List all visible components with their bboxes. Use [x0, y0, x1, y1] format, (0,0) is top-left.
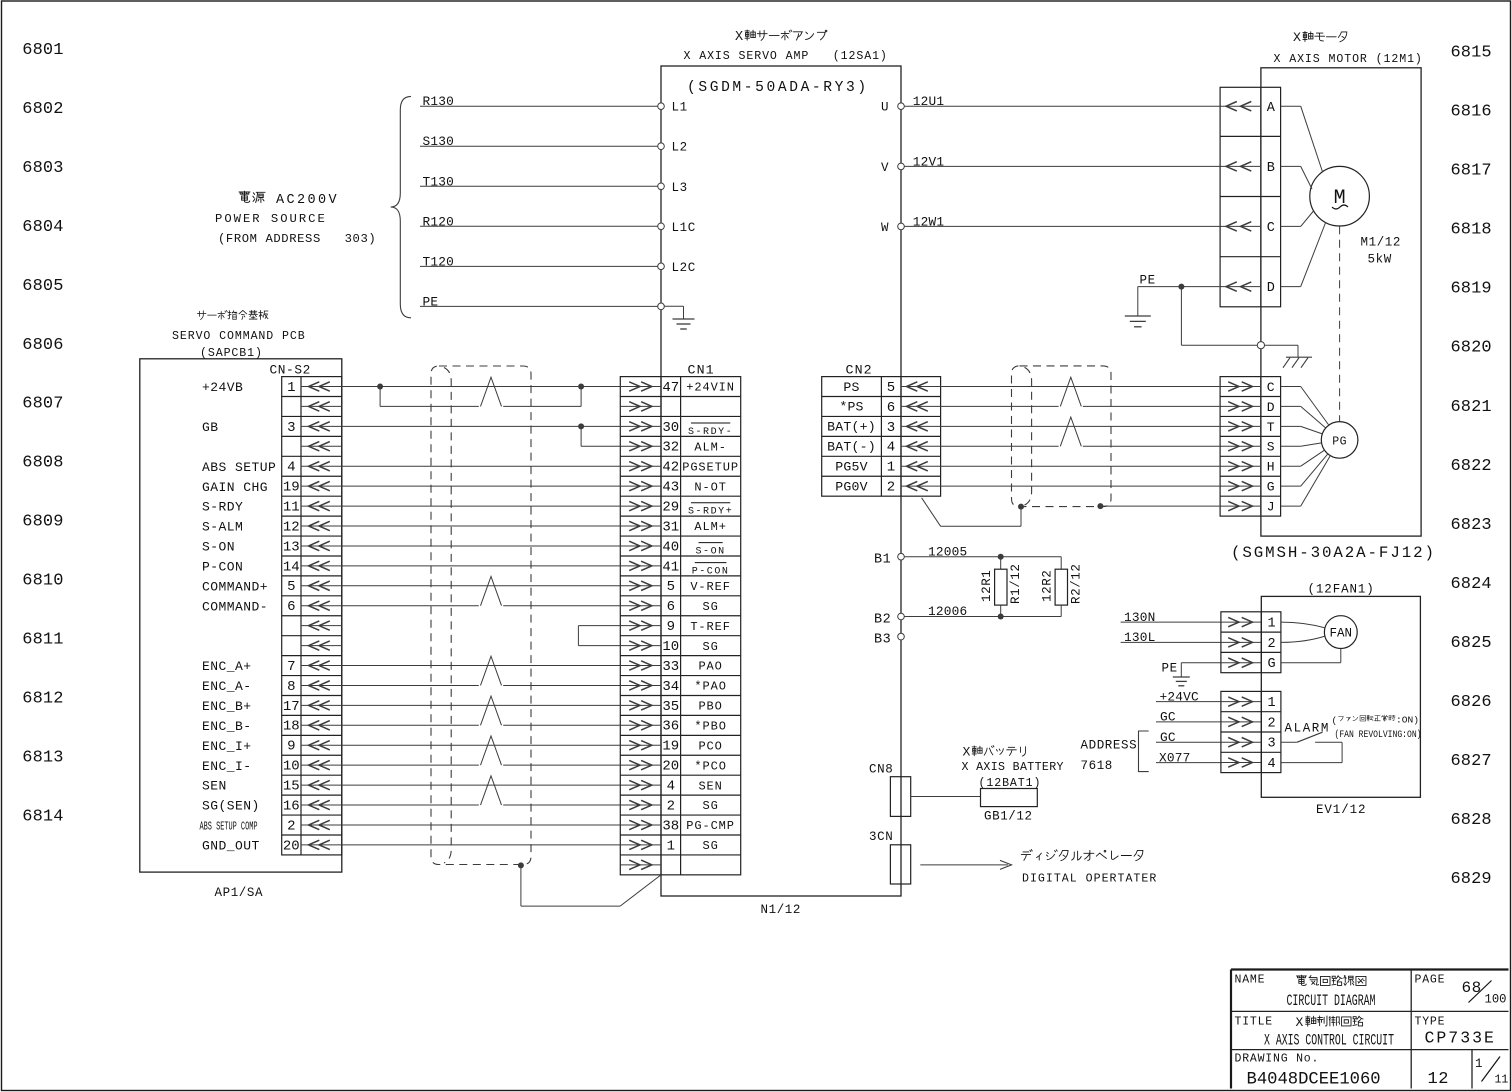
- wires encoder connector to PG: [1281, 387, 1331, 507]
- terminal W of servo amp: [881, 221, 904, 235]
- motor frame terminal circle: [1257, 342, 1264, 349]
- terminal U of servo amp: [881, 101, 904, 115]
- shield drain wire to CN1 shell: [518, 862, 660, 906]
- svg-text:1: 1: [287, 380, 295, 396]
- svg-text:6801: 6801: [22, 41, 63, 60]
- svg-text:12R2: 12R2: [1041, 570, 1055, 602]
- servo amplifier U=12SA1 box outline: [661, 66, 901, 896]
- wire CN-S2 row to CN1 pin (row 9): [342, 545, 621, 547]
- svg-text:PE: PE: [1162, 662, 1178, 676]
- svg-text:(: (: [1332, 715, 1338, 726]
- svg-text:6802: 6802: [22, 100, 63, 119]
- svg-text:15: 15: [283, 779, 300, 795]
- svg-text:T-REF: T-REF: [690, 620, 731, 634]
- svg-text:R120: R120: [423, 214, 455, 229]
- left margin line numbers 6801-6814: [22, 41, 63, 826]
- svg-text:17: 17: [283, 699, 300, 715]
- wire 130L to fan pin2: [1121, 630, 1221, 645]
- svg-text:CN-S2: CN-S2: [270, 363, 311, 378]
- wire CN-S2 row to CN1 pin (row 1): [342, 386, 621, 388]
- alarm connector cells 1 2 3 4: [1221, 691, 1281, 772]
- svg-text:6823: 6823: [1451, 516, 1492, 535]
- svg-text:10: 10: [283, 759, 300, 775]
- svg-text:B3: B3: [874, 633, 891, 648]
- chassis ground symbol inside motor: [1265, 345, 1313, 368]
- wires fan pins to fan motor: [1281, 622, 1341, 663]
- svg-text:SERVO COMMAND PCB: SERVO COMMAND PCB: [172, 330, 306, 343]
- svg-text:47: 47: [662, 380, 679, 396]
- svg-text:B2: B2: [874, 612, 891, 627]
- svg-text:6826: 6826: [1451, 693, 1492, 712]
- svg-text:1: 1: [1268, 696, 1276, 711]
- svg-text:11: 11: [1495, 1074, 1509, 1087]
- arrow to digital operator: [920, 860, 1011, 869]
- svg-text:1: 1: [887, 460, 895, 476]
- junctions and second conductor of +24VB pair: [377, 377, 584, 406]
- svg-text:ENC_I-: ENC_I-: [202, 759, 252, 774]
- svg-text:ENC_A-: ENC_A-: [202, 679, 252, 694]
- svg-text:P-CON: P-CON: [692, 566, 730, 577]
- svg-text:CN1: CN1: [688, 363, 715, 378]
- fan connector cells 1 2 G: [1221, 612, 1281, 673]
- svg-text:*PAO: *PAO: [694, 680, 726, 694]
- svg-text:ENC_B+: ENC_B+: [202, 699, 252, 714]
- svg-text:L3: L3: [672, 181, 688, 195]
- svg-text:AP1/SA: AP1/SA: [215, 886, 264, 900]
- svg-text:L1: L1: [672, 101, 688, 115]
- svg-text::ON): :ON): [1396, 716, 1419, 726]
- svg-text:SEN: SEN: [698, 779, 722, 793]
- svg-text:S-RDY+: S-RDY+: [688, 507, 733, 518]
- svg-text:6: 6: [667, 599, 675, 615]
- svg-text:4: 4: [887, 440, 895, 456]
- svg-text:100: 100: [1485, 993, 1507, 1007]
- svg-text:4: 4: [287, 460, 295, 476]
- svg-text:GB: GB: [202, 420, 219, 435]
- wire CN-S2 row to CN1 pin (row 17): [342, 704, 621, 706]
- servo command PCB box (SAPCB1): [140, 359, 342, 872]
- svg-text:X AXIS BATTERY: X AXIS BATTERY: [962, 761, 1064, 774]
- svg-text:5: 5: [667, 579, 675, 595]
- svg-text:COMMAND+: COMMAND+: [202, 579, 268, 594]
- title block PAGE 68/100: [1415, 974, 1507, 1007]
- svg-text:31: 31: [662, 519, 679, 535]
- svg-text:20: 20: [283, 838, 300, 854]
- svg-text:14: 14: [283, 559, 300, 575]
- svg-text:TITLE: TITLE: [1235, 1016, 1274, 1029]
- svg-text:CIRCUIT DIAGRAM: CIRCUIT DIAGRAM: [1287, 992, 1376, 1010]
- command cable shield (dashed): [431, 366, 531, 865]
- svg-text:12R1: 12R1: [980, 570, 994, 602]
- wire encoder shield to pin J: [1097, 503, 1220, 509]
- svg-text:C: C: [1267, 221, 1275, 236]
- svg-text:ENC_B-: ENC_B-: [202, 719, 252, 734]
- svg-text:40: 40: [662, 539, 679, 555]
- resistor 12R2 R2/12: [1041, 557, 1084, 617]
- svg-text:+24VB: +24VB: [202, 380, 243, 395]
- label ADDRESS 7618 with bracket: [1081, 731, 1149, 773]
- connector 3CN body: [890, 845, 910, 884]
- svg-text:6813: 6813: [22, 748, 63, 767]
- svg-text:S-ALM: S-ALM: [202, 520, 243, 535]
- svg-text:ENC_I+: ENC_I+: [202, 739, 252, 754]
- wire CN2 PG5V to encoder: [941, 465, 1221, 467]
- svg-text:X AXIS CONTROL CIRCUIT: X AXIS CONTROL CIRCUIT: [1264, 1032, 1394, 1050]
- svg-text:12V1: 12V1: [913, 154, 945, 169]
- svg-text:8: 8: [287, 679, 295, 695]
- svg-text:NAME: NAME: [1235, 974, 1266, 987]
- svg-text:X: X: [963, 745, 971, 760]
- svg-text:ABS SETUP COMP: ABS SETUP COMP: [200, 820, 258, 833]
- encoder cable shield (dashed): [1012, 366, 1112, 507]
- wire CN-S2 row to CN1 pin (row 18): [342, 696, 621, 725]
- connector CN-S2 table 24 rows: [282, 377, 342, 855]
- wire CN2 PS to encoder: [941, 386, 1221, 388]
- ground symbol at servo amp PE input: [664, 306, 694, 329]
- svg-text:M1/12: M1/12: [1361, 236, 1402, 250]
- servo amp title X-axis servo amp (Japanese): [735, 30, 827, 45]
- wire R130 to servo amp: [420, 94, 658, 109]
- wire CN-S2 row to CN1 pin (row 10): [342, 565, 621, 567]
- svg-text:BAT(-): BAT(-): [827, 440, 876, 455]
- wire PE to servo amp: [420, 294, 658, 309]
- svg-text:ENC_A+: ENC_A+: [202, 659, 252, 674]
- svg-text:12006: 12006: [928, 604, 967, 619]
- svg-text:2: 2: [287, 818, 295, 834]
- svg-text:6: 6: [887, 400, 895, 416]
- svg-text:M: M: [1334, 187, 1346, 210]
- svg-text:68: 68: [1462, 979, 1482, 997]
- svg-text:6808: 6808: [22, 454, 63, 473]
- svg-text:SG: SG: [702, 839, 718, 853]
- svg-text:12W1: 12W1: [913, 214, 945, 229]
- wire CN-S2 row to CN1 pin (row 6): [342, 485, 621, 487]
- svg-text:S: S: [1267, 440, 1275, 455]
- connector CN2 table with pins PS *PS BAT(+) BAT(-) PG5V PG0V: [822, 377, 941, 497]
- svg-text:42: 42: [662, 460, 679, 476]
- svg-text:G: G: [1267, 480, 1275, 495]
- svg-text:D: D: [1267, 281, 1275, 296]
- svg-text:20: 20: [662, 759, 679, 775]
- svg-text:6828: 6828: [1451, 811, 1492, 830]
- svg-text:7: 7: [287, 659, 295, 675]
- jumper T-REF pin9 to SG pin10: [578, 626, 620, 646]
- svg-text:X077: X077: [1159, 750, 1191, 765]
- svg-text:32: 32: [662, 440, 679, 456]
- svg-text:2: 2: [667, 798, 675, 814]
- title block sheet 1/11: [1475, 1057, 1508, 1087]
- wires motor terminals A-D to winding: [1281, 106, 1326, 286]
- wire CN-S2 row to CN1 pin (row 15): [342, 665, 621, 667]
- power source brace: [391, 96, 411, 317]
- terminal PE on servo amp: [658, 303, 665, 310]
- svg-text:*PBO: *PBO: [694, 720, 726, 734]
- svg-text:X: X: [735, 30, 743, 45]
- svg-text:T120: T120: [423, 254, 455, 269]
- svg-text:PBO: PBO: [698, 700, 722, 714]
- wire 12005 from B1: [904, 544, 1061, 559]
- label servo command PCB (Japanese): [197, 310, 268, 319]
- svg-text:GAIN CHG: GAIN CHG: [202, 480, 268, 495]
- svg-text:SG: SG: [702, 799, 718, 813]
- svg-text:S-RDY-: S-RDY-: [688, 427, 733, 438]
- wire GC to alarm pin2: [1156, 710, 1221, 725]
- wire CN-S2 row to CN1 pin (row 5): [342, 465, 621, 467]
- svg-text:GND_OUT: GND_OUT: [202, 838, 260, 853]
- svg-text:34: 34: [662, 679, 679, 695]
- svg-text:PCO: PCO: [698, 739, 722, 753]
- svg-text:6822: 6822: [1451, 457, 1492, 476]
- svg-text:6814: 6814: [22, 807, 63, 826]
- wire 12006 from B2: [904, 604, 1061, 619]
- svg-text:PAGE: PAGE: [1415, 974, 1446, 987]
- svg-text:N-OT: N-OT: [694, 480, 726, 494]
- title block TITLE X axis control circuit: [1235, 1015, 1395, 1050]
- svg-text:ABS SETUP: ABS SETUP: [202, 460, 276, 475]
- svg-text:S-ON: S-ON: [202, 540, 235, 555]
- svg-text:43: 43: [662, 480, 679, 496]
- svg-text:H: H: [1267, 460, 1275, 475]
- svg-text:P-CON: P-CON: [202, 559, 243, 574]
- wire R120 to servo amp: [420, 214, 658, 229]
- svg-text:18: 18: [283, 719, 300, 735]
- svg-text:GB1/12: GB1/12: [984, 810, 1033, 824]
- svg-text:PG5V: PG5V: [835, 460, 867, 475]
- svg-text:130N: 130N: [1124, 610, 1156, 625]
- resistor 12R1 R1/12: [980, 557, 1023, 617]
- svg-text:X AXIS SERVO AMP (12SA1): X AXIS SERVO AMP (12SA1): [684, 50, 888, 63]
- svg-text:6805: 6805: [22, 277, 63, 296]
- motor shaft dashed link to PG encoder: [1339, 226, 1341, 421]
- svg-text:SG: SG: [702, 600, 718, 614]
- svg-text:6: 6: [287, 599, 295, 615]
- svg-text:PG0V: PG0V: [835, 479, 867, 494]
- svg-text:L1C: L1C: [672, 221, 696, 235]
- wire X077 to alarm pin4: [1156, 750, 1221, 765]
- svg-text:(SGDM-50ADA-RY3): (SGDM-50ADA-RY3): [687, 80, 869, 96]
- svg-text:TYPE: TYPE: [1415, 1016, 1446, 1029]
- right margin line numbers 6815-6829: [1451, 43, 1492, 889]
- wire CN-S2 row to CN1 pin (row 16): [342, 656, 621, 685]
- svg-text:6812: 6812: [22, 689, 63, 708]
- svg-text:130L: 130L: [1124, 630, 1156, 645]
- wire 12U1 from U to motor terminal A: [904, 94, 1220, 109]
- svg-text:10: 10: [662, 639, 679, 655]
- svg-text:V: V: [881, 161, 889, 175]
- svg-text:5kW: 5kW: [1368, 253, 1392, 267]
- svg-text:3: 3: [287, 420, 295, 436]
- junction on wire 12006: [998, 614, 1004, 620]
- svg-text:S130: S130: [423, 134, 455, 149]
- wire CN-S2 row to CN1 pin (row 20): [342, 736, 621, 765]
- svg-text:R130: R130: [423, 94, 455, 109]
- terminal L1 on servo amp: [658, 101, 688, 115]
- fan motor circle FAN: [1324, 616, 1357, 649]
- svg-text:6807: 6807: [22, 395, 63, 414]
- terminal L2C on servo amp: [658, 261, 696, 275]
- wire CN-S2 row to CN1 pin (row 12): [342, 577, 621, 606]
- svg-text:(SGMSH-30A2A-FJ12): (SGMSH-30A2A-FJ12): [1231, 544, 1436, 562]
- svg-text:(12FAN1): (12FAN1): [1308, 583, 1375, 597]
- junction on PE wire: [1178, 284, 1184, 290]
- svg-text:35: 35: [662, 699, 679, 715]
- svg-text:CP733E: CP733E: [1425, 1029, 1496, 1048]
- svg-text:2: 2: [1268, 716, 1276, 731]
- svg-text:ALARM: ALARM: [1285, 722, 1331, 736]
- svg-text:S-RDY: S-RDY: [202, 500, 243, 515]
- terminal B1: [874, 553, 904, 568]
- terminal L1C on servo amp: [658, 221, 696, 235]
- title block NAME circuit diagram: [1235, 974, 1376, 1011]
- terminal B3: [874, 633, 904, 648]
- wire PE to motor terminal D: [1138, 274, 1220, 288]
- svg-text:SEN: SEN: [202, 779, 227, 794]
- svg-text:ALM-: ALM-: [694, 440, 726, 454]
- svg-text:L2: L2: [672, 141, 688, 155]
- earth ground symbol on PE wire: [1125, 287, 1151, 327]
- svg-text:G: G: [1268, 657, 1276, 672]
- junction GB branch to ALM- pin 32: [578, 423, 620, 446]
- svg-text:B1: B1: [874, 553, 891, 568]
- svg-text:6809: 6809: [22, 513, 63, 532]
- svg-text:X: X: [1293, 31, 1301, 46]
- svg-text:A: A: [1267, 101, 1276, 116]
- svg-text:12005: 12005: [928, 544, 967, 559]
- svg-text:+24VC: +24VC: [1160, 689, 1200, 704]
- wire CN-S2 row to CN1 pin (row 24): [342, 844, 621, 846]
- junction on wire 12005: [998, 554, 1004, 560]
- svg-text:*PCO: *PCO: [694, 759, 726, 773]
- svg-text:SG: SG: [702, 640, 718, 654]
- wire CN2 *PS to encoder: [941, 377, 1221, 406]
- terminal L3 on servo amp: [658, 181, 688, 195]
- svg-text:5: 5: [287, 579, 295, 595]
- svg-text:FAN: FAN: [1330, 627, 1353, 641]
- wire CN8 to battery: [911, 796, 981, 798]
- title block frame: [1231, 970, 1509, 1089]
- svg-text:GC: GC: [1160, 730, 1176, 745]
- svg-text:POWER SOURCE: POWER SOURCE: [215, 212, 327, 226]
- svg-text:(FAN REVOLVING:ON): (FAN REVOLVING:ON): [1335, 729, 1422, 741]
- svg-text:DRAWING No.: DRAWING No.: [1235, 1053, 1320, 1066]
- motor winding symbol M circle: [1310, 166, 1370, 226]
- svg-text:R1/12: R1/12: [1009, 563, 1023, 604]
- svg-text:DIGITAL OPERTATER: DIGITAL OPERTATER: [1022, 873, 1157, 886]
- svg-text:3CN: 3CN: [869, 830, 893, 844]
- svg-text:9: 9: [667, 619, 675, 635]
- motor M=12M1 box outline: [1261, 68, 1421, 536]
- wire 130N to fan pin1: [1121, 610, 1221, 625]
- svg-text:36: 36: [662, 719, 679, 735]
- wire T120 to servo amp: [420, 254, 658, 269]
- wire CN-S2 row to CN1 pin (row 8): [342, 525, 621, 527]
- battery GB1/12 (12BAT1): [962, 745, 1064, 824]
- wire CN-S2 row to CN1 pin (row 22): [342, 776, 621, 805]
- svg-text:(12BAT1): (12BAT1): [979, 777, 1042, 790]
- svg-text:12U1: 12U1: [913, 94, 945, 109]
- shield drain wire to CN2 shell: [922, 498, 1024, 527]
- svg-text:6817: 6817: [1451, 162, 1492, 181]
- svg-text:*PS: *PS: [839, 400, 863, 415]
- svg-text:PGSETUP: PGSETUP: [682, 460, 739, 474]
- svg-text:(SAPCB1): (SAPCB1): [200, 347, 263, 360]
- svg-text:16: 16: [283, 798, 300, 814]
- svg-text:13: 13: [283, 539, 300, 555]
- svg-text:ALM+: ALM+: [694, 520, 726, 534]
- wire CN2 BAT(-) to encoder: [941, 417, 1221, 446]
- svg-text:4: 4: [667, 779, 675, 795]
- svg-text:6815: 6815: [1451, 43, 1492, 62]
- svg-text:11: 11: [283, 499, 300, 515]
- wire CN-S2 row to CN1 pin (row 11): [342, 585, 621, 587]
- svg-text:6804: 6804: [22, 218, 63, 237]
- title block TYPE CP733E: [1415, 1016, 1496, 1048]
- wire GC to alarm pin3: [1156, 730, 1221, 745]
- note fan revolving ON (Japanese): [1332, 715, 1420, 726]
- svg-text:B4048DCEE1060: B4048DCEE1060: [1247, 1071, 1381, 1090]
- svg-text:6824: 6824: [1451, 575, 1492, 594]
- label digital operator (Japanese): [1021, 850, 1143, 861]
- svg-text:CN8: CN8: [869, 762, 893, 776]
- wire CN-S2 row to CN1 pin (row 21): [342, 784, 621, 786]
- alarm contact switch: [1281, 732, 1342, 762]
- svg-text:3: 3: [887, 420, 895, 436]
- svg-text:12: 12: [283, 519, 300, 535]
- power source label AC200V (Japanese+text): [239, 191, 339, 208]
- svg-text:S-ON: S-ON: [695, 547, 725, 558]
- svg-text:BAT(+): BAT(+): [827, 420, 876, 435]
- svg-text:6820: 6820: [1451, 339, 1492, 358]
- svg-text:1: 1: [1475, 1057, 1483, 1071]
- svg-text:7618: 7618: [1081, 759, 1113, 773]
- wire CN2 BAT(+) to encoder: [941, 425, 1221, 427]
- wire 12W1 from W to motor terminal C: [904, 214, 1220, 229]
- terminal L2 on servo amp: [658, 141, 688, 155]
- encoder connector cells C D T S H G J: [1220, 377, 1281, 517]
- svg-text:SG(SEN): SG(SEN): [202, 799, 260, 814]
- svg-text:PS: PS: [843, 380, 859, 395]
- motor title X-axis motor (Japanese): [1293, 31, 1347, 46]
- motor power connector cells A B C D: [1220, 87, 1281, 306]
- svg-text:N1/12: N1/12: [761, 903, 802, 917]
- svg-text:3: 3: [1268, 737, 1276, 752]
- svg-text:6821: 6821: [1451, 398, 1492, 417]
- svg-text:L2C: L2C: [672, 261, 696, 275]
- svg-text:U: U: [881, 101, 889, 115]
- svg-text:4: 4: [1268, 757, 1276, 772]
- svg-text:38: 38: [662, 818, 679, 834]
- wire 12V1 from V to motor terminal B: [904, 154, 1220, 169]
- svg-text:2: 2: [1268, 637, 1276, 652]
- svg-text:D: D: [1267, 400, 1275, 415]
- wire CN-S2 row to CN1 pin (row 3): [342, 425, 621, 427]
- svg-text:+24VIN: +24VIN: [686, 381, 735, 395]
- svg-text:29: 29: [662, 499, 679, 515]
- svg-text:CN2: CN2: [846, 363, 873, 378]
- svg-text:41: 41: [662, 559, 679, 575]
- svg-text:GC: GC: [1160, 710, 1176, 725]
- svg-text:2: 2: [887, 480, 895, 496]
- connector CN1 table 25 rows: [620, 377, 740, 875]
- wire CN-S2 row to CN1 pin (row 23): [342, 824, 621, 826]
- svg-text:AC200V: AC200V: [276, 193, 339, 208]
- svg-text:6810: 6810: [22, 572, 63, 591]
- svg-text:J: J: [1267, 499, 1275, 514]
- svg-text:COMMAND-: COMMAND-: [202, 599, 268, 614]
- svg-text:6829: 6829: [1451, 870, 1492, 889]
- wire CN-S2 row to CN1 pin (row 19): [342, 744, 621, 746]
- svg-text:C: C: [1267, 380, 1275, 395]
